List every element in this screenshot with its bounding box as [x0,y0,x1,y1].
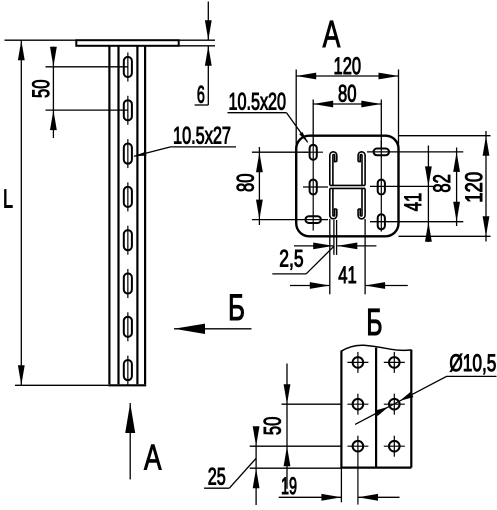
label 10.5x20 with leader [228,113,308,142]
base plate 120x120 [296,136,398,237]
svg-text:Б: Б [366,302,382,344]
label 10.5x27 with leader [134,147,236,156]
break line (top) [341,345,412,351]
svg-text:10.5x20: 10.5x20 [229,89,287,116]
slot centerlines section A [303,141,381,232]
view arrow Б [174,328,252,330]
plate slots 10.5x20 [305,145,389,230]
svg-text:41: 41 [400,193,427,212]
dimension 80 (top) [313,100,381,149]
svg-text:Ø10,5: Ø10,5 [449,350,496,377]
svg-text:19: 19 [281,473,297,500]
dimension 82 (right) [456,148,458,227]
svg-text:120: 120 [334,53,362,80]
svg-text:50: 50 [28,80,55,99]
svg-text:А: А [323,14,341,56]
plate outline view Б [341,348,411,468]
dimension 80 (left of section) [252,147,328,225]
svg-text:6: 6 [197,82,205,109]
dimension 50 (view Б) [250,364,342,489]
label Ø10,5 with leader [355,376,496,424]
dimension L [5,40,109,385]
dimension 50 (slot pitch) [46,47,129,139]
dimension 120 (right) [485,131,487,242]
right side extension lines [367,136,491,237]
dimension 2,5 [272,246,376,274]
dimension 41 (bottom) [290,285,408,287]
svg-text:80: 80 [338,81,357,108]
svg-text:80: 80 [232,174,259,193]
slot centerlines [127,53,129,385]
top plate (side view) [76,40,178,46]
svg-text:120: 120 [461,172,488,203]
svg-text:82: 82 [429,174,456,193]
svg-text:Б: Б [228,287,245,328]
dimension 41 (right) [427,146,429,243]
svg-text:41: 41 [338,262,357,289]
svg-text:50: 50 [259,417,286,436]
H profile strut cross-section: upper channel [330,152,365,219]
wall thickness feature lines (2,5) [330,219,365,294]
holes Ø10,5 (6x) [353,357,400,451]
dimension 120 (top) [296,70,398,149]
hole center marks [347,352,404,505]
column slots 10.5x27 (8x) [124,57,132,380]
svg-text:25: 25 [208,463,226,490]
svg-text:2,5: 2,5 [279,245,303,272]
column channel (side view) [108,46,146,385]
dimension 19 (view Б) [279,468,400,503]
dimension 6 (plate thickness) [179,2,215,106]
H profile strut cross-section: lower channel [330,189,337,219]
view arrow А [129,403,131,479]
svg-text:L: L [3,184,13,214]
svg-text:10.5x27: 10.5x27 [173,123,231,150]
dimension 25 (view Б) [204,432,341,505]
svg-text:А: А [144,437,162,478]
H profile webs [330,184,365,186]
